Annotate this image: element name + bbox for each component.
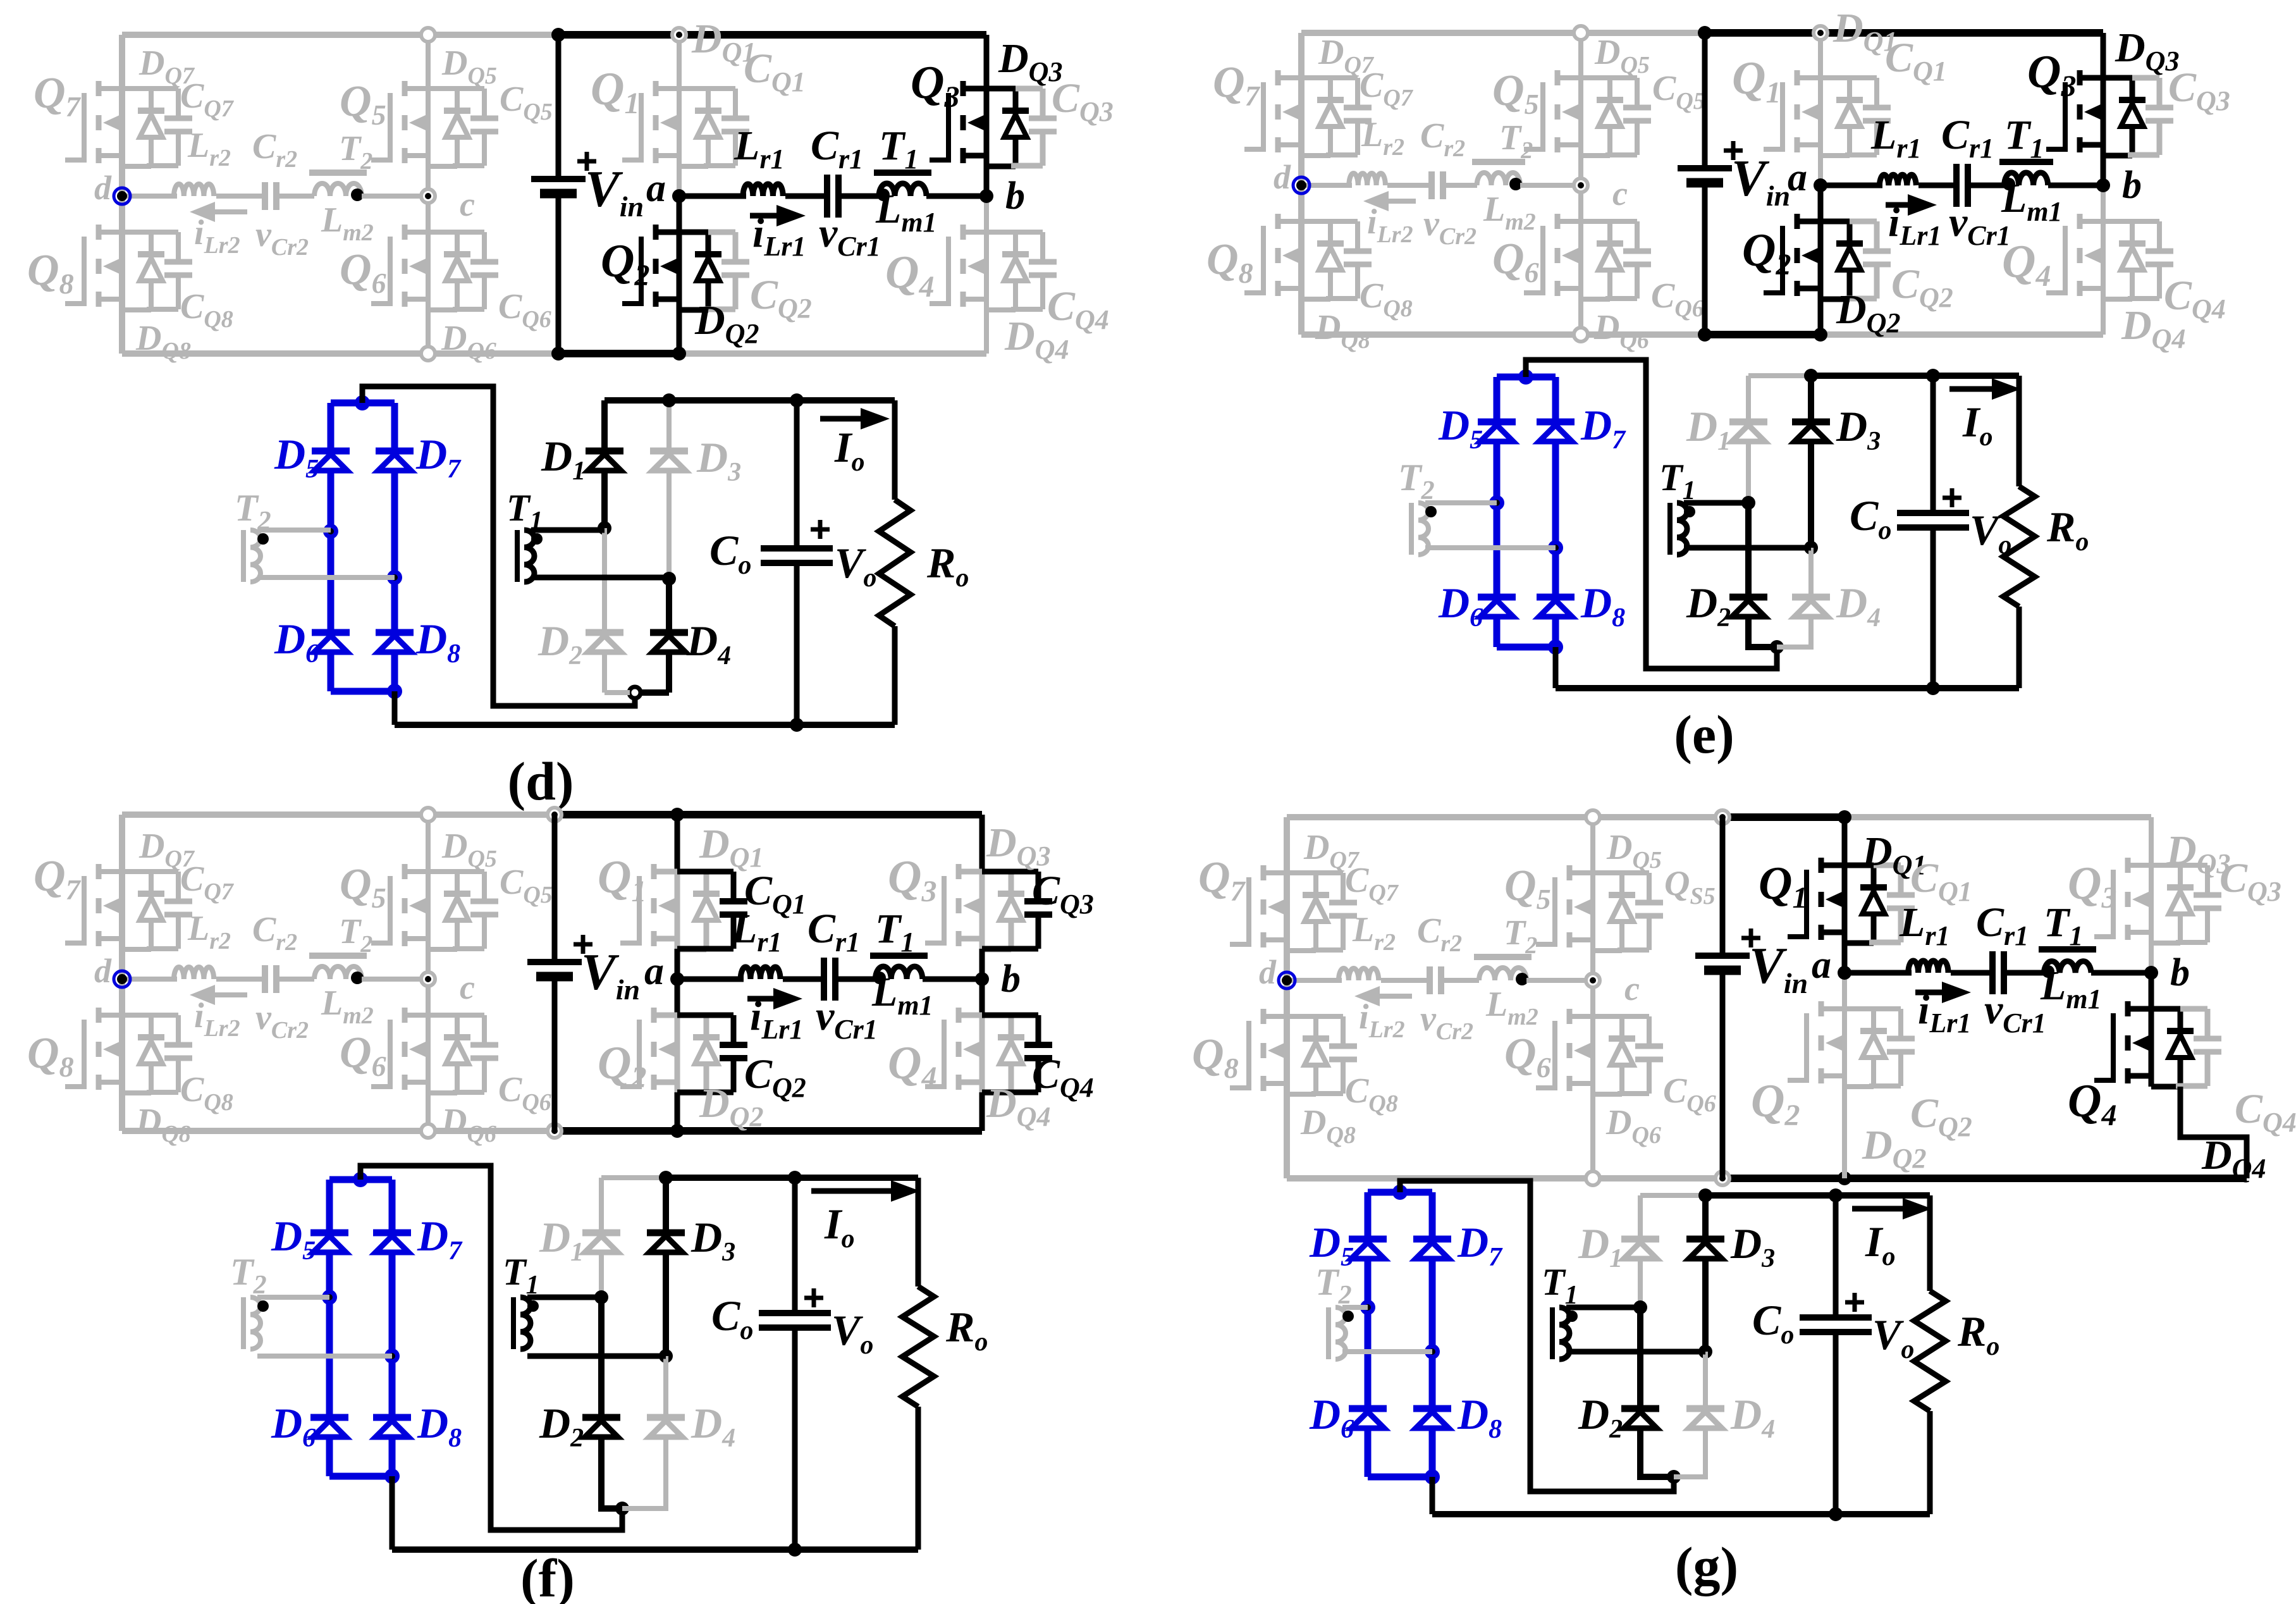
svg-text:a: a <box>646 167 666 210</box>
svg-text:a: a <box>644 950 664 993</box>
svg-text:b: b <box>1001 958 1021 1001</box>
svg-text:b: b <box>1005 175 1025 218</box>
svg-text:c: c <box>1612 175 1628 213</box>
svg-text:d: d <box>1259 953 1277 991</box>
svg-text:b: b <box>2170 951 2190 994</box>
svg-text:(g): (g) <box>1675 1536 1738 1596</box>
svg-text:(d): (d) <box>507 751 574 811</box>
svg-text:b: b <box>2122 164 2142 207</box>
svg-text:a: a <box>1812 944 1831 987</box>
svg-text:d: d <box>94 952 112 990</box>
svg-text:d: d <box>1274 158 1291 196</box>
svg-text:d: d <box>94 169 112 207</box>
svg-text:c: c <box>460 968 475 1006</box>
svg-text:c: c <box>460 185 475 223</box>
svg-text:c: c <box>1624 970 1640 1008</box>
svg-text:(f): (f) <box>520 1548 575 1604</box>
svg-text:a: a <box>1788 156 1807 199</box>
svg-text:(e): (e) <box>1674 704 1734 765</box>
